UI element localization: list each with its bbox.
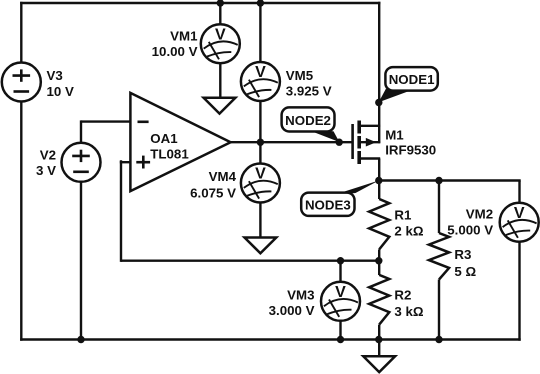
label VM1 reading [152,29,198,60]
svg-text:VM3: VM3 [287,288,314,303]
svg-text:3.925 V: 3.925 V [286,84,332,99]
svg-text:VM5: VM5 [286,68,314,83]
voltmeter VM1 [201,24,240,63]
wire: VM4 bottom lead to ground [259,202,261,238]
junction: feedback / VM3 branch [337,257,344,264]
svg-text:VM4: VM4 [209,169,237,184]
wire: R1 bottom lead to mid junction [378,249,380,261]
wire: R2 top lead [378,261,380,275]
svg-text:6.075 V: 6.075 V [190,186,236,201]
ground below VM1 [204,98,236,114]
svg-text:10 V: 10 V [47,84,74,99]
svg-text:2 kΩ: 2 kΩ [394,224,423,239]
svg-text:NODE1: NODE1 [389,72,435,87]
svg-text:3 V: 3 V [36,163,56,178]
wire: op-amp output to MOSFET gate [231,141,353,143]
wire: left rail upper (top rail to V3 plus terminal) [20,2,22,63]
label V2 value [36,147,56,178]
wire: VM1 bottom lead to ground [219,63,221,99]
svg-text:3 kΩ: 3 kΩ [394,304,423,319]
wire: R2 bottom lead [378,325,380,340]
label VM2 reading [447,207,493,238]
voltage source V3 [2,63,41,102]
svg-text:M1: M1 [385,128,404,143]
svg-text:IRF9530: IRF9530 [385,142,436,157]
transistor M1 IRF9530 (P-channel MOSFET) [353,121,437,165]
voltmeter VM3 [321,282,360,321]
svg-text:R3: R3 [454,247,471,262]
svg-text:R2: R2 [394,288,411,303]
svg-text:5 Ω: 5 Ω [454,264,476,279]
node callout NODE3 [301,181,379,216]
wire: V2 bottom lead down to bottom rail [80,182,82,340]
wire: op-amp + input short horizontal [120,161,132,163]
node NODE1 junction dot [375,99,382,106]
junction: op-amp output / VM5 / VM4 [257,139,264,146]
wire: op-amp + input vertical feedback lead [120,160,122,262]
svg-text:10.00 V: 10.00 V [152,44,198,59]
op-amp OA1 TL081 [130,93,230,191]
label VM4 reading [190,169,236,201]
wire: VM3 top lead [339,261,341,283]
ground below VM4 [245,238,277,254]
svg-text:V2: V2 [40,147,56,162]
resistor R2 3 kOhm [369,275,424,325]
wire: feedback horizontal from op-amp + input column to R1/R2 junction [121,260,379,262]
ground below R2 at bottom rail [363,356,395,372]
node NODE3 junction dot [375,177,382,184]
wire: VM2 top lead [518,181,520,204]
svg-text:TL081: TL081 [150,146,189,161]
wire: VM4 top lead from output node [259,142,261,164]
wire: VM2 bottom lead down to bottom rail [518,242,520,341]
wire: VM5 bottom lead to op-amp output node [259,101,261,143]
junction: bottom rail / R2 ground [375,336,382,343]
svg-text:3.000 V: 3.000 V [269,303,315,318]
junction: bottom rail / VM3 [337,336,344,343]
voltmeter VM4 [241,164,280,203]
label VM3 reading [269,288,315,318]
node callout NODE1 [379,67,438,102]
svg-text:OA1: OA1 [150,131,178,146]
junction: top rail / VM1 [217,0,224,7]
svg-text:VM1: VM1 [170,29,198,44]
svg-text:V3: V3 [47,68,63,83]
resistor R3 5 Ohm [429,233,477,280]
label V3 value [47,68,74,99]
svg-text:NODE3: NODE3 [305,198,351,213]
svg-text:R1: R1 [394,207,412,222]
wire: NODE3 horizontal out to right branch [378,179,521,181]
wire: top rail from top-left corner to MOSFET drain column [20,2,380,4]
svg-text:VM2: VM2 [466,207,493,222]
junction: R1 bottom / R2 top / feedback [375,257,382,264]
wire: VM3 bottom lead [339,320,341,340]
wire: left rail lower (V3 minus terminal to bottom rail) [20,101,22,341]
junction: R3 branch top [435,177,442,184]
wire: main vertical at x=379 from top rail through NODE1 to MOSFET source/bulk [378,2,380,144]
wire: R3 bottom lead [438,280,440,341]
svg-text:5.000 V: 5.000 V [447,223,493,238]
wire: MOSFET drain down to NODE3 [378,159,380,182]
node callout NODE2 [282,107,340,142]
wire: op-amp - input horizontal from V2 top [81,120,132,122]
svg-text:NODE2: NODE2 [285,113,331,128]
node NODE2 junction dot on gate wire [336,139,343,146]
wire: R3 top lead [438,181,440,234]
wire: VM5 top lead from top rail [259,3,261,63]
voltmeter VM5 [241,62,280,101]
junction: bottom rail / V2 [77,336,84,343]
voltmeter VM2 [500,203,539,242]
voltage source V2 [62,143,101,182]
wire: bottom ground rail [20,338,521,340]
junction: bottom rail / R3 [435,336,442,343]
wire: ground stem below bottom rail at R2 column [378,340,380,357]
label VM5 reading [286,68,332,98]
resistor R1 2 kOhm [369,199,424,249]
wire: VM1 top lead from top rail [219,3,221,25]
wire: R1 top lead from NODE3 [378,181,380,200]
wire: V2 top lead [80,120,82,143]
junction: top rail / VM5 [257,0,264,7]
